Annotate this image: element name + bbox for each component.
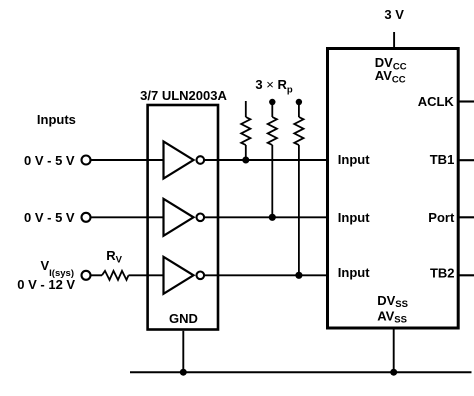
wire U2 VSS stub [393, 328, 395, 372]
svg-text:3 V: 3 V [384, 7, 404, 22]
buffer U1C [164, 257, 205, 294]
wire ground rail [130, 371, 472, 373]
node Rp1 / line1 junction [242, 157, 249, 164]
svg-text:Input: Input [338, 152, 370, 167]
resistor Rp3 [294, 99, 303, 275]
svg-text:Input: Input [338, 210, 370, 225]
svg-text:GND: GND [169, 311, 198, 326]
terminal input 1 [82, 156, 91, 165]
buffer U1B [164, 199, 205, 236]
terminal input 2 [82, 213, 91, 222]
svg-text:0 V - 12 V: 0 V - 12 V [17, 277, 75, 292]
svg-text:Inputs: Inputs [37, 112, 76, 127]
resistor Rp2 [268, 99, 277, 218]
svg-text:TB2: TB2 [430, 266, 455, 281]
wire TB1 pin stub [460, 159, 474, 161]
wire buffer3 output to U2 input3 [205, 274, 327, 276]
wire RV to buffer3 [129, 274, 164, 276]
wire buffer1 output to U2 input1 [205, 159, 327, 161]
resistor Rp1 [241, 101, 250, 160]
svg-text:Port: Port [428, 210, 455, 225]
wire input1 to buffer1 [91, 159, 164, 161]
terminal input 3 [82, 271, 91, 280]
svg-text:0 V - 5 V: 0 V - 5 V [24, 153, 75, 168]
wire TB2 pin stub [460, 274, 474, 276]
svg-text:ACLK: ACLK [418, 94, 455, 109]
wire input3 to RV [91, 274, 102, 276]
svg-text:TB1: TB1 [430, 152, 455, 167]
IC U2 box MSP430 [328, 49, 459, 329]
buffer U1A [164, 142, 205, 179]
wire Port pin stub [460, 216, 474, 218]
svg-text:0 V - 5 V: 0 V - 5 V [24, 210, 75, 225]
svg-text:3/7 ULN2003A: 3/7 ULN2003A [140, 88, 227, 103]
resistor RV [102, 271, 129, 280]
node U2 VSS / rail junction [390, 369, 397, 376]
node Rp3 / line3 junction [295, 272, 302, 279]
wire buffer2 output to U2 input2 [205, 216, 327, 218]
wire ACLK pin stub [460, 100, 474, 102]
svg-text:Input: Input [338, 265, 370, 280]
IC U1 box ULN2003A [148, 105, 218, 330]
wire U1 GND stub [182, 331, 184, 372]
wire 3V stub to U2 top [393, 32, 395, 49]
wire input2 to buffer2 [91, 216, 164, 218]
node U1 GND / rail junction [180, 369, 187, 376]
node Rp2 / line2 junction [269, 214, 276, 221]
